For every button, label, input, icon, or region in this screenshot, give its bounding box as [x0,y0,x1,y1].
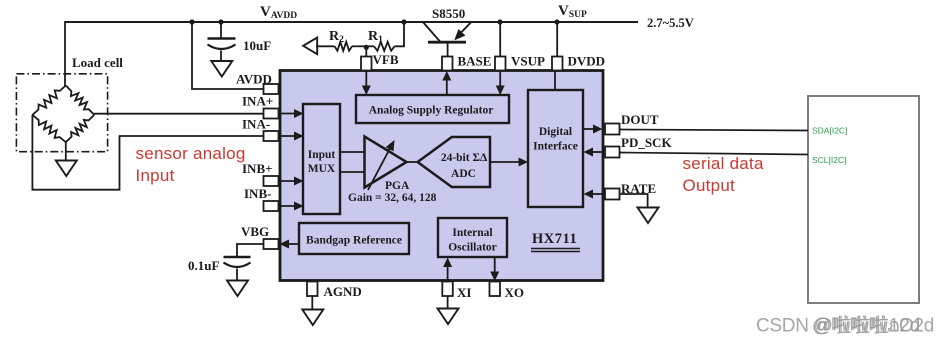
block Internal Oscillator [438,218,507,257]
node junction on rail above AVDD branch [189,19,194,24]
op-amp PGA triangle [365,137,407,188]
svg-text:INA-: INA- [242,117,270,132]
svg-text:sensor analog: sensor analog [136,144,246,163]
wire bandgap reference to VBG pin [287,243,299,245]
ground below load cell bridge [56,161,77,177]
svg-text:Digital: Digital [539,126,572,138]
wire XI pin into oscillator [447,265,449,281]
wire INB- pin into Input MUX [279,205,297,207]
wire bridge bottom to ground [65,142,67,161]
wire INB+ pin into Input MUX [279,180,297,182]
svg-text:BASE: BASE [458,54,492,69]
pin VFB [361,57,372,71]
svg-text:AGND: AGND [324,284,362,299]
resistor bridge top-right arm [66,86,95,115]
svg-text:10uF: 10uF [243,38,271,53]
resistor R2 [335,42,353,51]
wire RATE pin to ground [620,194,648,208]
wire rail to 10uF cap [220,22,222,39]
resistor R1 [374,42,395,51]
resistor bridge top-left arm [32,86,65,115]
svg-text:Oscillator: Oscillator [448,242,497,254]
wire DOUT to SDA [620,130,809,131]
wire triangle to R2 [316,45,335,47]
wire R1 to rail [395,22,405,46]
svg-text:SDA[I2C]: SDA[I2C] [812,126,847,136]
pin VBG [264,239,279,249]
pin INA+ [264,109,279,119]
wire XI pin to ground [447,296,449,309]
svg-text:Interface: Interface [533,141,578,153]
block 24-bit SD ADC [418,137,490,187]
block Digital Interface [528,90,583,207]
svg-text:DVDD: DVDD [568,54,606,69]
svg-text:serial data: serial data [683,154,764,173]
resistor bridge bottom-right arm [66,115,95,142]
svg-text:XI: XI [457,285,471,300]
wire VFB pin into regulator [365,71,367,88]
pin INA- [264,131,279,141]
svg-text:INB-: INB- [244,186,271,201]
node VFB junction [364,45,369,50]
pin VSUP [495,57,506,71]
svg-text:VBG: VBG [241,224,269,239]
block Bandgap Reference [299,223,409,254]
svg-text:S8550: S8550 [432,6,465,21]
wire Input MUX to PGA (upper) [340,151,364,153]
svg-text:HX711: HX711 [532,231,577,247]
resistor bridge bottom-left arm [32,115,65,142]
svg-text:@啦啦啦ภ2d: @啦啦啦ภ2d [812,315,920,337]
IC U1 HX711 body [280,71,603,281]
capacitor C 0.1uF [224,256,251,258]
wire INA+ pin into Input MUX [279,113,297,115]
node junction on rail above VSUP pin [497,19,502,24]
svg-text:Input: Input [308,149,336,161]
ground below XI [438,309,459,325]
svg-text:2.7~5.5V: 2.7~5.5V [647,16,694,30]
pin BASE [442,57,453,71]
svg-text:PD_SCK: PD_SCK [621,135,672,150]
wire rail to DVDD pin [556,22,558,57]
wire regulator to BASE pin (up arrow) [446,79,448,95]
pin DVDD [552,57,563,71]
ground triangle left of R2 (AGND) [303,38,317,55]
wire oscillator to XO pin [494,257,496,273]
wire PGA to ADC [407,161,418,163]
svg-text:VSUP: VSUP [511,54,545,69]
node junction on rail above 10uF cap [218,19,223,24]
svg-text:PGA: PGA [385,180,410,192]
svg-text:Load cell: Load cell [72,55,123,70]
wire VBG pin to 0.1uF cap [237,244,264,257]
pin AGND [307,282,318,297]
node junction on rail at R1 branch [401,19,406,24]
wire V_AVDD/V_SUP top rail [65,21,638,23]
ground below 0.1uF cap [227,281,248,297]
svg-text:VFB: VFB [373,52,399,67]
wire bridge left corner to INA- pin [32,115,263,190]
svg-text:24-bit ΣΔ: 24-bit ΣΔ [441,152,488,164]
wire bridge right corner to INA+ pin [94,113,264,115]
wire INA- pin into Input MUX [279,135,297,137]
load cell dash-dot enclosure [16,74,107,152]
pin INB+ [264,176,279,186]
svg-text:MUX: MUX [308,163,336,175]
PGA gain adjust arrow [368,146,392,191]
wire digital interface to DOUT pin [583,128,595,130]
wire AGND pin to ground [311,296,313,310]
svg-text:0.1uF: 0.1uF [188,258,219,273]
transistor Q1 S8550 PNP [428,41,466,44]
wire rail to VSUP pin [499,22,501,57]
pin XO [490,282,501,297]
wire PD_SCK to SCL [620,153,809,155]
wire VFB node down to VFB pin [365,46,367,57]
svg-text:ADC: ADC [451,168,476,180]
svg-text:Input: Input [136,166,175,185]
wire RATE pin into digital interface [591,193,603,195]
wire rail junction down and right to AVDD pin [192,22,264,89]
pin DOUT [605,124,620,135]
block Input MUX [303,104,340,214]
pin RATE [605,189,620,200]
node junction on rail above DVDD pin [554,19,559,24]
wire VFB node to R1 [366,45,374,47]
svg-text:AVDD: AVDD [236,72,272,87]
svg-text:DOUT: DOUT [621,112,659,127]
pin PD_SCK [605,147,620,158]
svg-text:Internal: Internal [452,227,492,239]
svg-text:INA+: INA+ [242,94,273,109]
svg-text:Gain = 32, 64, 128: Gain = 32, 64, 128 [348,192,437,204]
ground below 10uF cap [211,61,232,77]
pin INB- [264,201,279,211]
capacitor C 10uF [208,37,236,39]
svg-text:INB+: INB+ [242,161,273,176]
svg-text:XO: XO [505,285,525,300]
wire ADC to digital interface [490,161,520,163]
block Analog Supply Regulator [356,95,509,123]
wire from rail down to load cell bridge top [64,21,66,86]
svg-text:Bandgap Reference: Bandgap Reference [306,235,402,247]
wire Input MUX to PGA (lower) [340,171,364,173]
ground below AGND [302,310,323,326]
svg-text:Analog Supply Regulator: Analog Supply Regulator [369,105,494,117]
block external I2C host [808,96,919,303]
svg-text:Output: Output [683,176,736,195]
svg-text:SCL[I2C]: SCL[I2C] [812,155,847,165]
ground below RATE [638,208,659,224]
wire PD_SCK pin into digital interface [591,151,603,153]
pin XI [442,282,453,297]
wire DVDD pin into digital interface [554,71,556,91]
wire VSUP pin into regulator [499,71,501,88]
wire R2 to VFB node [352,45,366,47]
pin AVDD [264,84,279,94]
